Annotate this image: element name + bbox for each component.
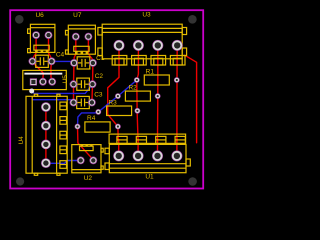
pads C4	[29, 57, 56, 65]
resistor R2 body	[125, 91, 150, 101]
svg-text:R2: R2	[128, 85, 137, 92]
wire C1 left to C2 left	[73, 63, 76, 84]
wire R2 right down to U1 box3	[157, 96, 159, 141]
white line inside U5	[24, 73, 62, 75]
wire U4 area to C3 left (blue)	[33, 100, 74, 102]
wire U3 pad1 to R3 left	[108, 45, 119, 126]
pads U1	[113, 150, 182, 161]
wire U6 pad1 to C4 left	[32, 35, 36, 61]
pads R4	[75, 124, 121, 130]
svg-text:U5: U5	[62, 75, 69, 84]
wire C1 right to C2 right	[92, 63, 94, 84]
wire U1 pad stubs up to SMD band	[118, 139, 120, 150]
wire U3 pad4 through R1 right down to U1 box4	[176, 45, 178, 141]
svg-text:C3: C3	[94, 92, 103, 99]
switch U5 outline	[23, 70, 67, 89]
wire C2 right to U5 white dot (blue)	[32, 84, 93, 93]
wire C4 right to U5 right pad	[51, 61, 52, 81]
svg-text:U4: U4	[18, 136, 25, 145]
capacitor C1 outline	[74, 57, 93, 69]
transistor U2 outline	[72, 145, 103, 173]
resistor R4 body	[85, 122, 110, 132]
wire C2 right to C3 right	[91, 84, 94, 102]
transistor U7 outline	[66, 25, 96, 54]
svg-text:C1: C1	[96, 55, 105, 62]
wire R4 left via to R2 left to R1 left (blue)	[78, 80, 137, 127]
transistor U6 outline	[28, 24, 55, 52]
capacitor C2 outline	[74, 78, 93, 90]
svg-text:C4: C4	[56, 52, 65, 59]
pads C1	[70, 59, 97, 67]
connector U3 outline	[98, 24, 187, 65]
pads U7	[72, 33, 92, 41]
white dot below U5	[29, 89, 34, 94]
svg-text:R1: R1	[146, 68, 155, 75]
svg-text:R3: R3	[108, 100, 117, 107]
pads U2	[77, 157, 97, 165]
resistor R1 body	[144, 75, 169, 85]
svg-text:R4: R4	[87, 115, 96, 122]
svg-text:U6: U6	[35, 12, 44, 19]
pads U4	[41, 102, 51, 168]
pads U5	[30, 78, 56, 86]
wire U7 pad1 to C1 left	[74, 37, 76, 63]
resistor R3 body	[107, 106, 132, 116]
pads U6	[32, 31, 52, 39]
wire U4 pad4 to U2 left pad (blue)	[49, 161, 81, 164]
wire U3 pad2 to R1 left	[137, 45, 139, 80]
pads R2	[115, 93, 161, 99]
svg-text:U3: U3	[142, 11, 151, 18]
board mounting holes	[15, 15, 197, 186]
wire U6 pad2 to C4 right	[49, 35, 52, 61]
wire U3 pad3 to R2 right	[157, 45, 159, 96]
capacitor C4 outline	[32, 55, 51, 67]
wire R4 right down to U1 box1	[117, 127, 119, 141]
wire R4 left to U2 right pad	[78, 127, 94, 160]
pads C2	[70, 80, 97, 88]
wire C4 right to C1 left (blue)	[52, 61, 74, 63]
wire U4 pads chain	[45, 107, 47, 163]
wire U3 box4 right bypass down to U1 band	[185, 55, 197, 143]
pads R3	[95, 108, 140, 115]
wire C2 left to C3 left	[73, 84, 75, 102]
capacitor C3 outline	[74, 96, 92, 108]
connector U4 outline	[26, 94, 67, 175]
wire U7 pad2 to C1 right	[88, 37, 93, 63]
svg-text:U7: U7	[73, 12, 82, 19]
svg-text:U2: U2	[84, 175, 93, 182]
pads R1	[134, 77, 180, 83]
wire R1 left down through R3 right to U1 box2	[137, 80, 138, 142]
pads C3	[70, 99, 96, 107]
board edge (magenta outline)	[10, 10, 203, 188]
pads U3	[114, 40, 183, 51]
svg-text:C2: C2	[95, 73, 104, 80]
connector U1 outline	[105, 134, 190, 173]
wire C4 left to U5 middle pad	[32, 61, 43, 81]
svg-text:U1: U1	[145, 173, 154, 180]
